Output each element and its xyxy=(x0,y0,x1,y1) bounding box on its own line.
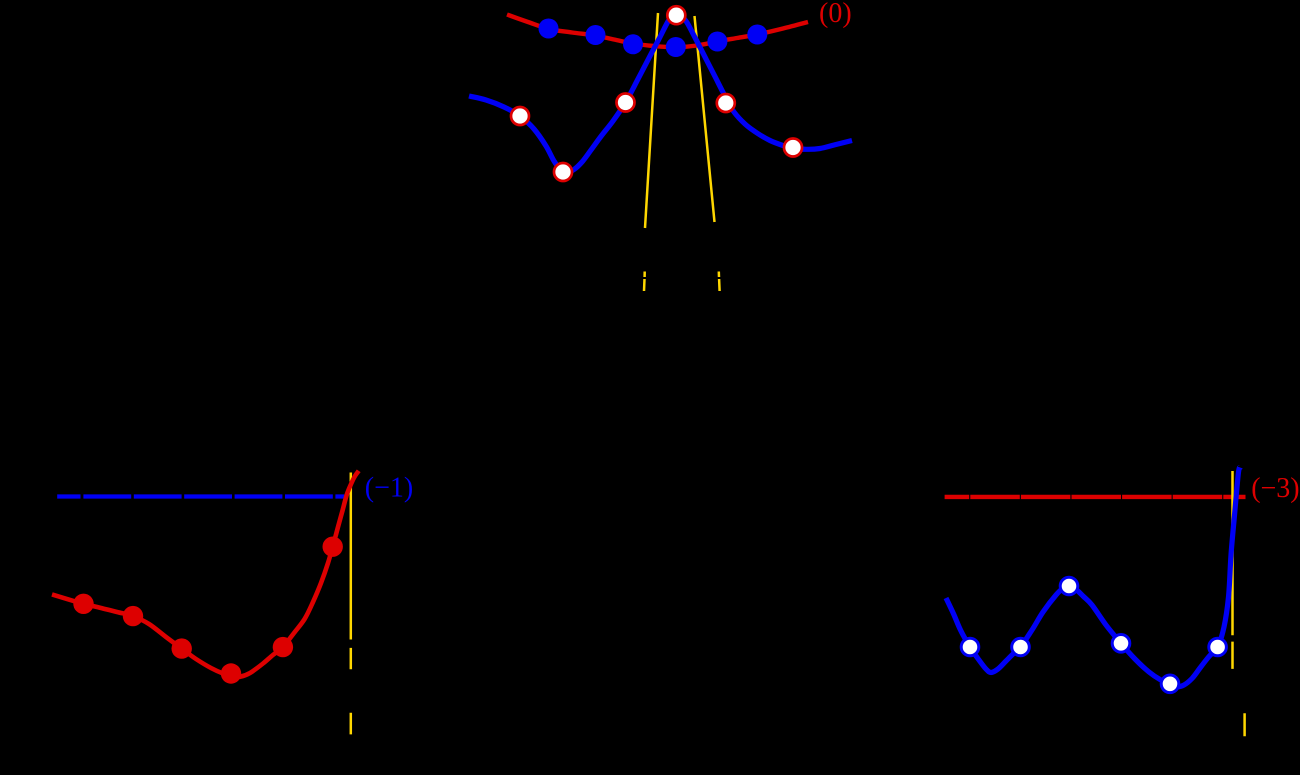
svg-text:(−3): (−3) xyxy=(1251,473,1299,504)
svg-text:(−1): (−1) xyxy=(365,472,413,503)
svg-text:(0): (0) xyxy=(819,0,852,29)
